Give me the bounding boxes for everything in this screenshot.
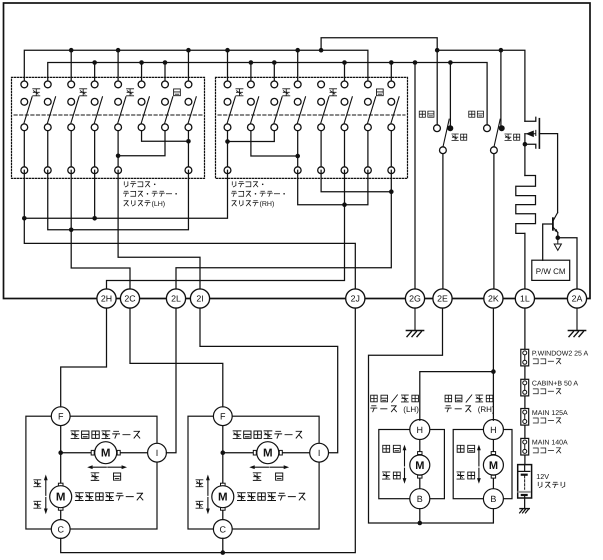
junction dot net-D <box>342 202 347 207</box>
label 復帰 switch2 <box>505 134 520 140</box>
junction dot emitter node <box>556 235 561 240</box>
svg-text:M: M <box>218 492 228 504</box>
label remote outer mirror switch (RH) <box>232 182 285 208</box>
junction dots internal (RH) <box>225 139 300 158</box>
up-down adjust motor M (RH) <box>221 483 226 486</box>
svg-text:2C: 2C <box>124 294 136 304</box>
wire net-B bus: b1c2+b1c3+b1c8 to 2C <box>48 170 189 289</box>
connector terminals row <box>97 289 587 308</box>
svg-text:(LH): (LH) <box>403 405 419 414</box>
svg-text:M: M <box>101 448 111 460</box>
svg-text:M: M <box>56 492 66 504</box>
ground at 2A <box>568 308 585 337</box>
FET Q1 body arrow <box>525 130 536 135</box>
fuse MAIN 125A <box>521 409 529 426</box>
circuit breaker (square-wave symbol) <box>516 176 536 234</box>
retract motor arrow (LH) <box>403 445 407 484</box>
retract motor M (LH) <box>418 452 422 455</box>
wires inside assembly (LH) <box>61 426 157 520</box>
left-right adjust motor M (LH) <box>91 450 94 455</box>
terminal H (LH) <box>410 420 430 440</box>
labels 格納 復帰 (LH) <box>383 445 401 479</box>
terminal F (LH) <box>51 407 70 426</box>
switch direction labels 上下左右 (LH) <box>33 89 181 96</box>
svg-text:M: M <box>415 460 424 472</box>
retract/return switch 2 contacts <box>484 125 491 132</box>
wire net-E bus: b2c5+b2c8 to 2L <box>176 170 391 289</box>
up-down arrow (LH) <box>44 475 48 515</box>
junction dot B bus <box>418 521 423 526</box>
retract/return motor box (LH) <box>379 430 445 499</box>
label 上下調整モータ (RH) <box>237 493 305 501</box>
terminal B (LH) <box>410 489 430 509</box>
label remote outer mirror switch (LH) <box>124 182 177 208</box>
junction dot net-E <box>389 189 394 194</box>
svg-text:H: H <box>417 425 424 435</box>
labels 左 右 (RH) <box>253 473 282 481</box>
labels 上 下 (LH) <box>34 480 41 508</box>
ground at 2G <box>406 308 423 337</box>
switch internal links (LH): straight drops c1-c5, cross c6>c8, c7>c5 <box>24 127 188 170</box>
left-right arrows (LH) <box>87 465 127 469</box>
svg-text:2A: 2A <box>572 294 583 304</box>
fuse MAIN 140A <box>521 438 529 455</box>
wire 2I to I (RH) <box>200 308 338 453</box>
svg-text:(RH): (RH) <box>478 405 495 414</box>
svg-text:H: H <box>490 425 497 435</box>
label 左右調整モータ (RH) <box>233 431 302 439</box>
terminal C (RH) <box>213 520 232 539</box>
label 上下調整モータ (LH) <box>75 493 143 501</box>
svg-text:2G: 2G <box>409 294 421 304</box>
svg-text:2E: 2E <box>437 294 448 304</box>
switch internal links (RH): cross c3>c1, c2>c4, straight drops c4-c8 <box>228 127 392 170</box>
wire lower supply bus <box>48 63 487 125</box>
terminal H (RH) <box>483 420 503 440</box>
svg-text:C: C <box>220 524 227 534</box>
switch blades (RH) <box>227 97 399 124</box>
junction dot net-B <box>69 228 74 233</box>
svg-text:P/W CM: P/W CM <box>536 267 566 276</box>
retract/return switch 1 blade and common <box>443 119 450 148</box>
mirror switch assembly box (LH) dotted outline <box>12 77 205 178</box>
mirror motor assembly box (RH) <box>188 416 319 529</box>
wire breaker to 1L <box>524 233 526 289</box>
retract/return motor label (RH) <box>445 395 493 402</box>
terminal B (RH) <box>483 489 503 509</box>
switch contact circles (RH) <box>224 81 395 174</box>
transistor Q2 base bar <box>552 218 554 230</box>
wire net-D bus: b2c4+b2c6+b2c7 to 2H <box>107 170 368 289</box>
labels 左 右 (LH) <box>91 473 120 481</box>
transistor Q2 collector lead <box>553 213 557 221</box>
svg-text:C: C <box>57 524 64 534</box>
FET Q1 channel bar <box>538 119 540 148</box>
svg-text:CABIN+B 50 A: CABIN+B 50 A <box>532 381 578 388</box>
svg-text:B: B <box>490 494 496 504</box>
FET Q1 gate lead to Q2 <box>539 134 557 213</box>
label 格納 switch1 <box>419 111 434 117</box>
label 左右調整モータ (LH) <box>71 431 140 439</box>
svg-text:2J: 2J <box>351 294 360 304</box>
wire bus drops to switch contacts <box>71 50 501 289</box>
up-down arrow (RH) <box>206 475 210 515</box>
label 復帰 switch1 <box>452 134 467 140</box>
wire 2K to H terminals <box>420 308 494 420</box>
up-down adjust motor M (LH) <box>58 483 63 486</box>
switch blades (LH) <box>24 97 196 124</box>
wire switch2 common to 2K <box>493 154 495 289</box>
left-right adjust motor M (RH) <box>253 450 256 455</box>
retract motor arrow (RH) <box>477 445 481 484</box>
junction dots internal (LH) <box>116 139 191 158</box>
svg-text:2I: 2I <box>196 294 203 304</box>
wire top jumper bus to retract contact <box>321 38 437 125</box>
terminal I (LH) <box>148 443 167 462</box>
wire 2L to I (LH) <box>166 308 176 453</box>
wire common C bus to 2J <box>61 308 356 552</box>
svg-text:2H: 2H <box>101 294 112 304</box>
P/W CM module box <box>532 260 570 280</box>
junction dot 2K branch <box>491 369 496 374</box>
transistor Q2 emitter with arrow <box>553 228 557 233</box>
junction dots net-A <box>22 216 97 221</box>
labels 格納 復帰 (RH) <box>457 445 475 479</box>
wire 1L fuse chain <box>524 308 526 465</box>
transistor Q2 base lead to P/W CM <box>543 224 553 260</box>
retract motor M (RH) <box>491 452 495 455</box>
junction dot assembly (LH) <box>58 450 63 455</box>
wire switch1 common to 2E <box>442 154 444 289</box>
fuse CABIN+B 50A <box>521 379 529 396</box>
mirror switch assembly box (RH) dotted outline <box>216 77 408 178</box>
FET Q1 drain bracket <box>525 117 536 121</box>
svg-text:M: M <box>263 448 273 460</box>
ground at battery <box>520 498 530 513</box>
switch direction labels 上下左右 (RH) <box>236 89 383 96</box>
svg-text:MAIN 140A: MAIN 140A <box>532 440 568 447</box>
label 格納 switch2 <box>469 111 484 117</box>
FET Q1 source bracket and source line <box>525 134 536 176</box>
svg-text:B: B <box>417 494 423 504</box>
module outline box (power window control module) <box>4 3 591 299</box>
terminal F (RH) <box>213 407 232 426</box>
battery 12V <box>518 465 532 498</box>
svg-text:F: F <box>58 412 64 422</box>
retract/return motor box (RH) <box>453 430 512 499</box>
terminal I (RH) <box>310 443 329 462</box>
svg-text:F: F <box>220 412 226 422</box>
wire 2C to F (RH) <box>130 308 223 407</box>
wire net-A bus: b1c1+b1c4+b2c1 to 2J <box>24 170 355 289</box>
wire Q2 emitter to 2A <box>558 233 577 289</box>
svg-text:2L: 2L <box>171 294 181 304</box>
wire inside retract motor (RH) <box>492 440 494 489</box>
wire upper supply bus <box>24 50 368 84</box>
wire 2E to B terminals <box>369 308 494 523</box>
svg-text:I: I <box>318 448 321 458</box>
retract/return switch 2 blade and common <box>494 119 501 148</box>
wire inside retract motor (LH) <box>419 440 421 489</box>
svg-text:2K: 2K <box>488 294 499 304</box>
svg-text:(RH): (RH) <box>260 200 275 208</box>
svg-text:M: M <box>489 460 498 472</box>
fuse P/WINDOW2 25A <box>521 349 529 366</box>
switch gang dashed line (LH) <box>14 114 202 116</box>
junction dot C bus <box>221 550 226 555</box>
svg-text:(LH): (LH) <box>152 200 166 208</box>
junction dot FET source <box>523 142 528 147</box>
switch gang dashed line (RH) <box>218 114 405 116</box>
switch contact circles (LH) <box>21 81 192 174</box>
current direction arrow (open triangle) <box>557 238 559 244</box>
svg-text:I: I <box>156 448 159 458</box>
retract/return motor label (LH) <box>371 395 419 402</box>
terminal C (LH) <box>51 520 70 539</box>
mirror motor assembly box (LH) <box>26 416 157 529</box>
svg-text:12V: 12V <box>536 472 549 481</box>
wire 2H to F (LH) <box>61 308 107 407</box>
labels 上 下 (RH) <box>196 480 203 508</box>
retract/return switch 1 contacts <box>434 125 441 132</box>
wire net-C: b1c5 to 2I <box>118 170 200 289</box>
junction dots on top buses <box>69 48 503 65</box>
wire right supply branch to FET <box>437 50 525 121</box>
wires inside assembly (RH) <box>223 426 319 520</box>
junction dot assembly (RH) <box>221 450 226 455</box>
left-right arrows (RH) <box>249 465 289 469</box>
svg-text:MAIN 125A: MAIN 125A <box>532 410 568 417</box>
svg-text:P.WINDOW2 25 A: P.WINDOW2 25 A <box>532 351 589 358</box>
svg-text:1L: 1L <box>520 294 530 304</box>
